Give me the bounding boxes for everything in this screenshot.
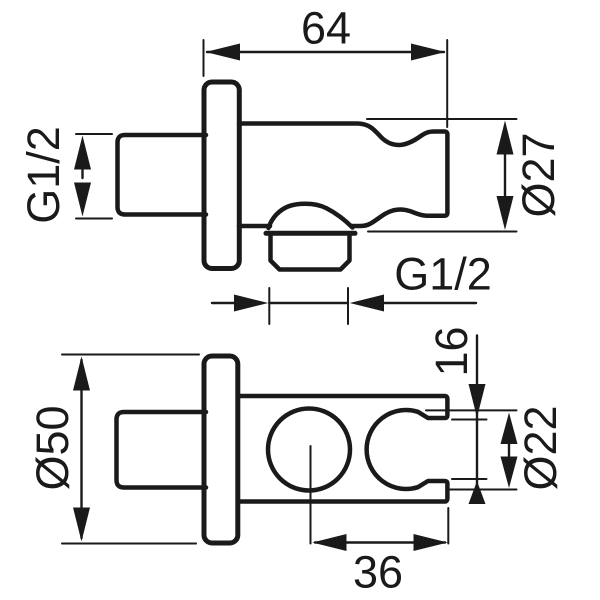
dim Ø50: extension line top <box>62 354 199 356</box>
dim Ø22: extension line bottom (long) <box>450 489 517 491</box>
dim Ø50: down arrowhead <box>73 508 90 542</box>
outlet dome (hose connection cone) <box>269 204 353 228</box>
dim G1/2 left: extension line top <box>76 133 112 135</box>
dim Ø50: extension line bottom <box>62 543 196 545</box>
swivel circle <box>268 409 350 491</box>
dim 64: left arrowhead <box>206 44 241 61</box>
svg-text:Ø27: Ø27 <box>513 132 564 217</box>
threaded inlet pipe (bottom view) <box>117 412 207 488</box>
dim 64: extension line right <box>446 40 448 127</box>
svg-text:G1/2: G1/2 <box>394 249 492 300</box>
outlet nut top bar <box>266 231 355 236</box>
svg-text:36: 36 <box>353 547 403 598</box>
dim Ø27: down arrowhead <box>497 196 514 230</box>
dim G1/2 bottom: extension line left <box>268 288 270 324</box>
holder body profile (top & right & bottom contour) <box>239 124 447 227</box>
dim G1/2 bottom: extension line right <box>347 288 349 324</box>
dim Ø27: extension line top <box>367 118 517 120</box>
dim 36: right arrowhead <box>414 534 448 551</box>
dim 36: dimension line <box>315 541 445 543</box>
body bottom edge left of outlet <box>239 224 270 229</box>
dim G1/2 left: up arrowhead with stem <box>74 136 91 170</box>
svg-text:G1/2: G1/2 <box>18 126 69 224</box>
dim 64: extension line left <box>203 40 205 76</box>
dim Ø50: up arrowhead <box>73 357 90 391</box>
holder body with fork (bottom view outline) <box>238 396 448 502</box>
fork arm reference line bottom (short) <box>452 478 487 480</box>
dim Ø22: up arrowhead <box>501 413 518 445</box>
dim Ø50: dimension line <box>80 360 82 538</box>
dim 16: leader stem <box>476 336 478 500</box>
dim 64: dimension line <box>207 51 444 53</box>
dim Ø27: extension line bottom <box>368 231 517 233</box>
dim Ø27: dimension line <box>504 150 506 200</box>
svg-text:Ø22: Ø22 <box>515 405 566 490</box>
dim Ø22: dimension line <box>508 440 510 462</box>
wall flange (front view) <box>204 82 239 269</box>
dim Ø27: up arrowhead <box>497 121 514 155</box>
dim Ø22: down arrowhead <box>501 457 518 489</box>
dim G1/2 left: extension line bottom <box>76 218 112 220</box>
dim 16: up arrowhead <box>469 481 486 504</box>
dim G1/2 left: down arrowhead <box>74 183 91 217</box>
dim 64: right arrowhead <box>411 44 446 61</box>
dim G1/2 bottom: dimension line between extension lines <box>269 302 348 304</box>
dim G1/2 bottom: right leader with left-pointing arrowhead <box>384 302 476 304</box>
wall flange (side view) <box>204 356 238 543</box>
dim 36: extension line right <box>447 508 449 544</box>
dim 36: left arrowhead <box>312 534 346 551</box>
circle center line <box>310 446 312 544</box>
dim Ø22: extension line top (long) <box>426 409 517 411</box>
dim G1/2 bottom: left leader with right-pointing arrowhead <box>212 302 235 304</box>
threaded inlet pipe G1/2 (left) <box>118 135 207 215</box>
fork arm reference line top (short) <box>452 419 487 421</box>
svg-text:64: 64 <box>301 3 351 54</box>
svg-text:16: 16 <box>426 326 477 376</box>
dim 16: down arrowhead <box>469 384 486 418</box>
outlet nut body <box>271 234 350 270</box>
svg-text:Ø50: Ø50 <box>27 405 78 490</box>
